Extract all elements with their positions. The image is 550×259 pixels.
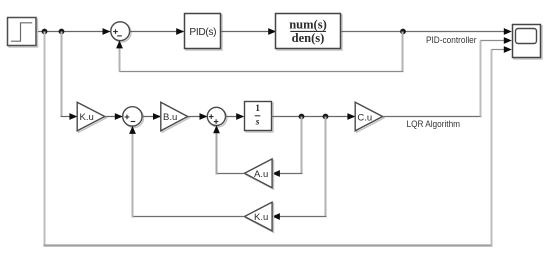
wire A.u to sum3 bottom [213,125,244,174]
svg-text:LQR Algorithm: LQR Algorithm [407,119,461,130]
sum junction U4 (integrator input) [207,107,227,127]
sum junction U1 (PID loop) [111,22,131,42]
junction dot J3 (PID feedback tap) [400,29,406,35]
wire J5 to gain K.u feedback [272,117,327,220]
gain K.u (LQR feedback) [245,202,274,232]
svg-text:s: s [255,118,260,128]
svg-text:K.u: K.u [80,112,94,123]
wire B.u to sum3 [188,113,208,120]
wire step to sum1 [36,28,111,35]
svg-text:A.u: A.u [254,169,268,180]
svg-text:1: 1 [255,103,260,113]
wire PID feedback loop [116,32,403,72]
gain B.u [161,102,189,132]
wire K.u feedback to sum2 bottom [129,126,244,218]
wire K.u to sum2 [105,113,123,120]
wire sum2 to gain B.u [142,113,161,120]
junction dot J2 (LQR input tap) [59,29,65,35]
wire sum1 to PID [130,28,185,35]
step input block [8,18,38,48]
wire C.u to scope input 2 [383,37,512,116]
integrator block 1/s [245,102,274,133]
svg-text:num(s): num(s) [289,18,327,32]
junction dot J1 (outer loop tap) [42,29,48,35]
svg-text:B.u: B.u [163,112,177,123]
svg-text:den(s): den(s) [292,31,325,45]
junction dot J4 (A.u feedback tap) [299,114,305,120]
wire outer loop step to scope input 3 [44,32,512,246]
wire integrator to gain C.u [271,113,355,120]
wire transfer fcn to scope input 1 [341,28,512,35]
PID(s) block U2 [185,14,223,51]
svg-text:PID(s): PID(s) [189,27,216,38]
junction dot J5 (K.u feedback tap) [323,114,329,120]
sum junction U3 (LQR outer) [123,107,144,128]
gain K.u (reference input) [77,102,106,132]
wire J2 to gain K.u [61,32,78,120]
scope block [513,25,543,60]
transfer fcn block num(s)/den(s) [276,14,343,51]
svg-text:C.u: C.u [357,113,372,124]
svg-text:K.u: K.u [254,212,268,223]
wire J4 to gain A.u [272,117,303,177]
wire sum3 to integrator [226,113,245,120]
gain C.u [355,102,384,132]
svg-text:PID-controller: PID-controller [426,35,477,46]
gain A.u (state feedback) [245,159,274,189]
wire PID to transfer fcn [221,28,276,35]
